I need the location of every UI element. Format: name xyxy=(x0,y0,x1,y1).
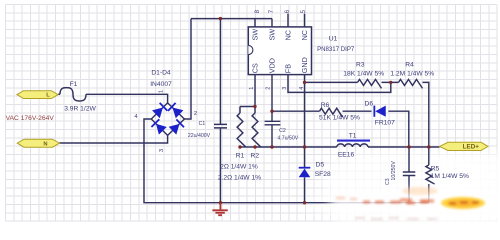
svg-text:SF28: SF28 xyxy=(315,171,331,178)
svg-text:C1: C1 xyxy=(199,121,206,127)
svg-text:SW: SW xyxy=(268,29,277,41)
svg-text:U1: U1 xyxy=(329,35,338,42)
svg-text:GND: GND xyxy=(300,57,309,73)
svg-text:R2: R2 xyxy=(251,152,260,159)
svg-text:D1-D4: D1-D4 xyxy=(151,70,171,77)
svg-text:10/250V: 10/250V xyxy=(391,161,397,181)
svg-text:NC: NC xyxy=(300,30,309,40)
svg-text:VAC 176V-264V: VAC 176V-264V xyxy=(6,115,55,122)
svg-text:FB: FB xyxy=(284,64,293,73)
svg-text:4: 4 xyxy=(299,87,305,90)
svg-text:VDD: VDD xyxy=(268,58,277,73)
svg-text:8: 8 xyxy=(254,9,261,13)
svg-text:L: L xyxy=(46,93,50,99)
svg-text:CS: CS xyxy=(251,63,260,73)
svg-text:1M 1/4W 5%: 1M 1/4W 5% xyxy=(431,173,469,180)
svg-text:R1: R1 xyxy=(236,152,245,159)
svg-text:1: 1 xyxy=(159,90,165,93)
svg-text:R6: R6 xyxy=(321,102,330,109)
svg-text:2: 2 xyxy=(194,111,197,117)
svg-text:NC: NC xyxy=(284,30,293,40)
svg-text:7: 7 xyxy=(268,9,275,13)
svg-text:51K 1/4W 5%: 51K 1/4W 5% xyxy=(319,115,360,122)
svg-text:N: N xyxy=(43,141,47,147)
svg-text:3: 3 xyxy=(159,149,165,152)
svg-text:18K 1/4W 5%: 18K 1/4W 5% xyxy=(343,71,384,78)
svg-text:2.2Ω 1/4W 1%: 2.2Ω 1/4W 1% xyxy=(218,175,261,182)
svg-text:D5: D5 xyxy=(316,162,325,169)
svg-text:R4: R4 xyxy=(405,61,414,68)
svg-text:R3: R3 xyxy=(356,61,365,68)
svg-text:22u/400V: 22u/400V xyxy=(188,133,211,139)
svg-text:C2: C2 xyxy=(279,128,286,134)
svg-text:5: 5 xyxy=(300,9,307,13)
svg-text:F1: F1 xyxy=(70,81,78,88)
svg-text:EE16: EE16 xyxy=(338,151,355,158)
svg-text:LED+: LED+ xyxy=(463,144,480,151)
svg-text:D6: D6 xyxy=(365,100,374,107)
svg-text:2: 2 xyxy=(266,87,272,90)
svg-text:T1: T1 xyxy=(349,133,357,140)
svg-text:3: 3 xyxy=(282,87,288,90)
svg-text:FR107: FR107 xyxy=(375,120,395,127)
svg-text:1.2M 1/4W 5%: 1.2M 1/4W 5% xyxy=(390,71,434,78)
svg-text:3.9R 1/2W: 3.9R 1/2W xyxy=(64,105,96,112)
svg-text:R5: R5 xyxy=(431,166,440,173)
svg-text:1: 1 xyxy=(249,87,255,90)
svg-text:6: 6 xyxy=(284,9,291,13)
svg-text:IN4007: IN4007 xyxy=(150,81,172,88)
svg-text:2Ω 1/4W 1%: 2Ω 1/4W 1% xyxy=(220,163,258,170)
svg-text:PN8317 DIP7: PN8317 DIP7 xyxy=(317,46,355,53)
svg-text:SW: SW xyxy=(251,29,260,41)
svg-text:4.7u/50V: 4.7u/50V xyxy=(277,135,298,141)
